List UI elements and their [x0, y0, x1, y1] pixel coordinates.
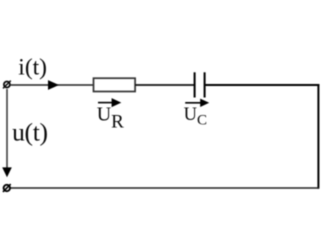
capacitor C left plate: [194, 72, 196, 97]
svg-text:UC: UC: [184, 105, 207, 129]
wire: right side vertical: [317, 84, 319, 189]
wire: bottom horizontal: [10, 187, 319, 189]
svg-text:u(t): u(t): [12, 117, 48, 146]
svg-text:i(t): i(t): [18, 54, 47, 80]
voltage arrow over U_C: [185, 99, 209, 107]
terminal node 2 (bottom-left input): [3, 184, 11, 192]
resistor R body: [94, 78, 136, 91]
current direction arrowhead i(t): [48, 80, 59, 90]
voltage u(t) arrow shaft: [6, 89, 8, 168]
voltage arrow over U_R: [98, 98, 121, 107]
terminal node 1 (top-left input): [3, 81, 11, 89]
voltage u(t) arrowhead: [2, 167, 12, 177]
svg-text:UR: UR: [97, 104, 124, 133]
wire: top-left horizontal segment: [10, 84, 94, 86]
wire: capacitor to top-right corner: [206, 84, 320, 86]
capacitor C right plate: [204, 72, 206, 97]
wire: resistor to capacitor: [135, 84, 194, 86]
